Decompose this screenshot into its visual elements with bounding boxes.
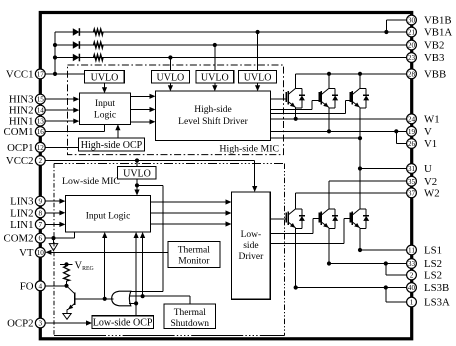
svg-text:Shutdown: Shutdown	[171, 319, 210, 329]
pin 1 LS3A	[407, 297, 450, 309]
svg-text:COM2: COM2	[4, 233, 34, 245]
wire FO	[45, 285, 66, 287]
block Low-side Driver	[232, 192, 271, 299]
svg-text:UVLO: UVLO	[244, 72, 272, 83]
pin 31 U	[407, 163, 432, 175]
junction COM2	[51, 236, 55, 240]
gate U2 shutdown OR (mirrored)	[112, 291, 131, 306]
pin 35 V2	[407, 176, 438, 188]
pin 9 LIN3	[10, 196, 45, 208]
svg-text:8: 8	[39, 209, 43, 217]
junction W1	[294, 117, 298, 121]
wire LIN3 with arrow	[45, 200, 63, 202]
svg-text:OCP1: OCP1	[7, 142, 33, 154]
wire VCC2 to UVLO5	[136, 161, 138, 167]
block UVLO 5 (low side)	[117, 167, 156, 179]
pin 11 LS1	[407, 245, 442, 257]
junction upper input branch	[141, 294, 145, 298]
svg-text:VB2: VB2	[424, 40, 444, 52]
wire gate input upper (thermal shutdown)	[129, 295, 190, 297]
svg-text:side: side	[243, 241, 258, 251]
wire U sense line	[271, 137, 361, 139]
junction base node	[103, 297, 107, 301]
svg-text:9: 9	[39, 198, 43, 206]
transistor T5 low-side IGBT V-phase	[319, 213, 321, 223]
wire bootstrap line 3 (VB3 net)	[55, 57, 407, 59]
junction FO/collector	[64, 284, 68, 288]
pin 28 VBB	[407, 68, 447, 80]
wire logic to driver 2 with arrow	[131, 109, 154, 111]
svg-text:LS3B: LS3B	[424, 282, 449, 294]
block UVLO 4	[239, 71, 277, 83]
svg-text:13: 13	[37, 118, 45, 126]
wire LS3A tie	[385, 288, 387, 303]
wire VBB rail	[296, 73, 407, 75]
High-side MIC boundary (dash-dot box)	[68, 65, 284, 155]
transistor T1 high-side IGBT W-phase	[285, 92, 287, 102]
svg-text:Input Logic: Input Logic	[86, 212, 131, 222]
wire V2 to T5 collector	[328, 181, 330, 209]
pin 2 VCC2	[6, 155, 45, 167]
junction UVLO tap line1	[256, 30, 260, 34]
pin 13 HIN1	[9, 116, 45, 128]
svg-text:High-side OCP: High-side OCP	[81, 140, 143, 151]
svg-text:26: 26	[408, 140, 416, 148]
wire V2 line	[329, 180, 407, 182]
wire W2 to T4 collector	[295, 193, 297, 209]
junction LS3B	[294, 285, 298, 289]
wire UVLO1 to Input Logic with arrow	[104, 83, 106, 92]
pin 17 VCC1	[6, 69, 45, 81]
resistor R2 bootstrap	[94, 42, 104, 48]
junction UVLO tap line2	[213, 43, 217, 47]
wire T6 gate	[270, 243, 344, 245]
svg-text:19: 19	[408, 128, 416, 136]
wire T2 emitter	[328, 108, 330, 132]
wire UVLO3 to driver with arrow	[214, 83, 216, 90]
junction VB1B tie	[384, 30, 388, 34]
junction V/V1 tie	[394, 129, 398, 133]
pin 16 COM1	[4, 126, 46, 138]
resistor R3 bootstrap	[94, 55, 104, 61]
wire logic to driver 1 with arrow	[131, 95, 154, 97]
svg-text:1: 1	[410, 299, 414, 307]
wire low logic to driver 1 with arrow	[151, 201, 230, 203]
wire OCP box to gate	[135, 303, 137, 315]
pin 14 HIN2	[9, 105, 45, 117]
svg-text:VCC2: VCC2	[6, 155, 34, 167]
svg-text:33: 33	[408, 260, 416, 268]
wire T4 gate	[270, 218, 286, 220]
ground COM2 substrate arrow	[53, 238, 55, 244]
svg-text:UVLO: UVLO	[123, 168, 151, 179]
junction UVLO5 branch	[135, 183, 139, 187]
wire VCC2 rail	[45, 160, 255, 162]
junction VREG	[64, 262, 68, 266]
wire LS1 line	[360, 249, 407, 251]
block Input Logic (high side)	[79, 93, 130, 124]
wire VCC1 input	[45, 73, 84, 75]
wire T3 collector	[359, 74, 361, 88]
svg-text:12: 12	[37, 144, 45, 152]
pin 21 VB1A	[407, 27, 453, 39]
svg-text:15: 15	[37, 96, 45, 104]
wire tap line2 to UVLO3	[214, 45, 216, 71]
wire logic to driver 3 with arrow	[131, 121, 154, 123]
IC package outline	[40, 13, 411, 339]
svg-text:2: 2	[410, 272, 414, 280]
diode D1 bootstrap	[73, 28, 80, 36]
svg-text:35: 35	[408, 178, 416, 186]
svg-text:VCC1: VCC1	[6, 69, 34, 81]
wire T3 emitter to U node	[359, 108, 361, 209]
svg-text:11: 11	[408, 247, 415, 255]
wire gate input lower (OCP)	[129, 302, 136, 304]
wire HIN2 with arrow	[45, 109, 77, 111]
junction UVLO tap line3	[168, 55, 172, 59]
pin 7 LIN1	[10, 219, 45, 231]
wire tap line3 to UVLO2	[169, 58, 171, 71]
pin 20 VB2	[407, 40, 445, 52]
Low-side MIC boundary (dotted box)	[54, 163, 285, 165]
wire LIN1 with arrow	[45, 223, 63, 225]
wire LS3B line	[296, 287, 407, 289]
wire gate output to base node	[106, 298, 114, 300]
svg-text:VB1B: VB1B	[424, 15, 452, 27]
svg-text:COM1: COM1	[4, 126, 34, 138]
pin 40 LS3B	[407, 282, 450, 294]
junction LS2 tie	[384, 261, 388, 265]
svg-text:V: V	[424, 126, 432, 138]
junction LS2	[327, 261, 331, 265]
wire T1 emitter	[295, 108, 297, 119]
svg-text:W2: W2	[424, 187, 440, 199]
junction lower input branch	[134, 301, 138, 305]
junction VCC1	[53, 72, 57, 76]
supply VREG rail	[60, 263, 73, 265]
wire W2 line	[296, 192, 407, 194]
block UVLO 2	[152, 71, 190, 83]
wire branch to low logic with arrow	[142, 233, 144, 296]
wire LIN2 with arrow	[45, 212, 63, 214]
svg-text:30: 30	[408, 17, 416, 25]
pin 10 VT	[19, 247, 45, 259]
svg-text:Low-: Low-	[241, 230, 262, 240]
svg-text:High-side: High-side	[194, 105, 231, 115]
svg-text:VB1A: VB1A	[424, 27, 452, 39]
pin 23 VB3	[407, 52, 445, 64]
pin 24 W1	[407, 113, 440, 125]
wire base to gate output	[75, 298, 105, 300]
wire OCP to logic with arrow	[117, 126, 119, 138]
svg-text:High-side MIC: High-side MIC	[219, 144, 279, 155]
wire W1 line	[271, 118, 407, 120]
pin 30 VB1B	[407, 15, 452, 27]
junction VCC1/bootstrap line3	[53, 55, 57, 59]
wire T1 gate	[271, 98, 287, 100]
block Thermal Shutdown	[164, 304, 216, 329]
block High-side Level Shift Driver	[156, 91, 271, 140]
pin 6 COM2	[4, 233, 46, 245]
wire COM2	[45, 237, 74, 239]
ground emitter substrate arrow	[63, 314, 71, 320]
svg-text:37: 37	[408, 189, 416, 197]
wire low logic to driver 3 with arrow	[151, 223, 230, 225]
svg-text:14: 14	[37, 107, 45, 115]
wire T3 gate	[271, 113, 346, 115]
svg-text:21: 21	[408, 29, 416, 37]
svg-text:Low-side OCP: Low-side OCP	[93, 318, 153, 329]
wire low logic to driver 2 with arrow	[151, 212, 230, 214]
wire tap line1 to UVLO4	[257, 32, 259, 71]
wire HIN1 with arrow	[45, 120, 77, 122]
wire VCC2 to low driver with arrow	[254, 161, 256, 191]
wire T5 gate	[270, 233, 313, 235]
wire VCC1 to bootstrap rail (vertical)	[54, 32, 56, 74]
junction LS3B tie	[384, 285, 388, 289]
svg-text:LIN3: LIN3	[10, 196, 33, 208]
diode D3 bootstrap	[73, 54, 80, 62]
junction VCC2/UVLO5	[135, 158, 139, 162]
svg-text:6: 6	[39, 235, 43, 243]
svg-text:Level Shift Driver: Level Shift Driver	[178, 116, 248, 127]
wire T1 collector	[295, 74, 297, 88]
junction U sense	[358, 136, 362, 140]
svg-text:16: 16	[37, 128, 45, 136]
junction U	[358, 166, 362, 170]
block Low-side OCP	[92, 316, 153, 329]
svg-text:24: 24	[408, 115, 416, 123]
pin 15 HIN3	[9, 94, 45, 106]
svg-text:Input: Input	[95, 99, 115, 109]
svg-text:28: 28	[408, 70, 416, 78]
wire VB1B stub	[386, 19, 406, 21]
wire VT with arrow to pin	[47, 251, 168, 253]
junction VCC1/bootstrap line2	[53, 43, 57, 47]
block UVLO 3	[196, 71, 234, 83]
pin 8 LIN2	[10, 207, 45, 219]
wire OCP2 with arrow	[45, 322, 90, 324]
svg-text:Monitor: Monitor	[178, 257, 210, 267]
svg-text:LIN1: LIN1	[10, 219, 33, 231]
svg-text:3: 3	[39, 320, 43, 328]
wire T6 emitter	[359, 228, 361, 250]
svg-text:4: 4	[39, 282, 43, 290]
wire bootstrap line 2 (VB2 net)	[55, 44, 407, 46]
junction V	[327, 129, 331, 133]
wire T5 emitter	[328, 228, 330, 264]
pin 3 OCP2	[7, 318, 45, 330]
svg-text:V1: V1	[424, 138, 437, 150]
svg-text:UVLO: UVLO	[157, 72, 185, 83]
pin 26 V1	[407, 138, 438, 150]
pin 4 FO	[20, 280, 46, 292]
junction VBB T2	[327, 72, 331, 76]
svg-text:VBB: VBB	[424, 68, 446, 80]
wire T2 collector	[328, 74, 330, 88]
wire HIN3 with arrow	[45, 98, 77, 100]
wire LS2 second pin tie	[385, 264, 387, 276]
svg-text:LS2: LS2	[424, 270, 442, 282]
svg-text:FO: FO	[20, 280, 34, 292]
svg-text:17: 17	[37, 71, 45, 79]
svg-text:OCP2: OCP2	[7, 318, 33, 330]
wire V1 tie	[395, 131, 397, 143]
svg-text:Driver: Driver	[239, 252, 265, 262]
wire T2 gate	[271, 109, 312, 111]
junction LS1	[358, 248, 362, 252]
wire base node to low logic with arrow	[104, 233, 106, 298]
wire UVLO5 branch to shutdown logic	[137, 184, 163, 186]
svg-text:UVLO: UVLO	[91, 72, 119, 83]
wire U line	[360, 168, 407, 170]
svg-text:10: 10	[37, 249, 45, 257]
transistor Q1 fault output NPN	[74, 293, 76, 306]
svg-text:7: 7	[39, 221, 43, 229]
transistor T3 high-side IGBT U-phase	[350, 92, 352, 102]
pin 2 LS2	[407, 270, 442, 282]
svg-text:31: 31	[408, 165, 416, 173]
svg-text:W1: W1	[424, 113, 440, 125]
svg-text:LIN2: LIN2	[10, 207, 33, 219]
wire T4 emitter	[295, 228, 297, 288]
wire UVLO4 to driver with arrow	[257, 83, 259, 90]
resistor R1 bootstrap	[94, 29, 104, 35]
block Thermal Monitor	[168, 242, 220, 268]
svg-text:2: 2	[39, 157, 43, 165]
wire UVLO2 to driver with arrow	[169, 83, 171, 90]
svg-text:23: 23	[408, 54, 416, 62]
transistor T4 low-side IGBT W-phase	[285, 213, 287, 223]
wire LS2 line	[329, 263, 407, 265]
svg-text:Logic: Logic	[94, 111, 116, 121]
svg-text:LS1: LS1	[424, 245, 442, 257]
wire OCP1	[45, 146, 79, 148]
resistor VREG pull-up	[64, 266, 70, 281]
wire COM1	[45, 131, 104, 133]
svg-text:40: 40	[408, 284, 416, 292]
svg-text:Low-side MIC: Low-side MIC	[62, 176, 120, 187]
svg-text:20: 20	[408, 42, 416, 50]
pin 37 W2	[407, 187, 440, 199]
junction VBB T3	[358, 72, 362, 76]
svg-text:V2: V2	[424, 176, 437, 188]
pin 19 V	[407, 126, 432, 138]
wire V line	[271, 130, 407, 132]
transistor T6 low-side IGBT U-phase	[350, 213, 352, 223]
svg-text:VB3: VB3	[424, 52, 444, 64]
diode D2 bootstrap	[73, 41, 80, 49]
block Input Logic (low side)	[65, 196, 150, 233]
svg-text:VT: VT	[19, 247, 34, 259]
svg-text:Thermal: Thermal	[174, 308, 207, 318]
svg-text:LS3A: LS3A	[424, 297, 450, 309]
transistor T2 high-side IGBT V-phase	[319, 92, 321, 102]
block High-side OCP	[79, 138, 145, 151]
pin 33 LS2	[407, 258, 442, 270]
svg-text:LS2: LS2	[424, 258, 442, 270]
svg-text:U: U	[424, 163, 432, 175]
wire UVLO5 to low input logic with arrow	[136, 179, 138, 194]
wire bootstrap line 1 (VB1A net)	[55, 31, 407, 33]
pin 12 OCP1	[7, 142, 45, 154]
wire branch OCP to low logic with arrow	[135, 233, 137, 303]
svg-text:Thermal: Thermal	[178, 246, 211, 256]
block UVLO 1 (VCC1)	[85, 71, 125, 83]
svg-text:UVLO: UVLO	[201, 72, 229, 83]
